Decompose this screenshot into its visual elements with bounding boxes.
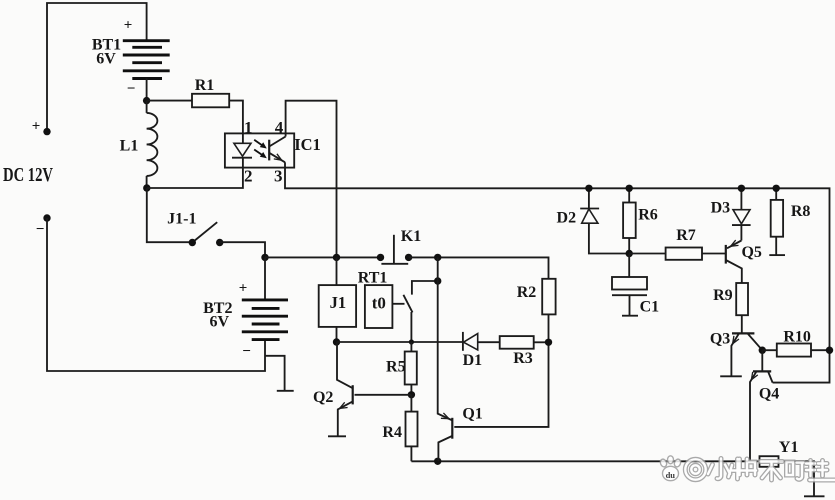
- resistor R9: [713, 283, 748, 333]
- transistor Q2: [313, 342, 353, 436]
- relay coil J1: [319, 257, 356, 342]
- wire K1 row right part to R2: [409, 257, 549, 278]
- svg-text:−: −: [242, 344, 251, 360]
- diode D1: [463, 332, 500, 369]
- node R8 top junction: [773, 185, 780, 192]
- wire row from J1 bottom to D1: [337, 341, 463, 343]
- resistor R8: [771, 188, 811, 255]
- switch K1: [377, 228, 421, 264]
- svg-text:−: −: [36, 222, 45, 238]
- node R2/R3/Q1 base junction: [545, 339, 552, 346]
- svg-text:R10: R10: [783, 328, 811, 345]
- wire Q1 emitter rail: [438, 257, 453, 420]
- label BT2 6V: [203, 300, 232, 330]
- node L1 bottom junction: [143, 184, 150, 191]
- svg-text:R7: R7: [676, 227, 696, 244]
- wire bottom long rail: [411, 460, 759, 462]
- node BT1 bottom junction: [143, 97, 150, 104]
- svg-text:6V: 6V: [210, 313, 230, 330]
- inductor L1: [120, 101, 158, 188]
- svg-text:2: 2: [244, 166, 253, 185]
- ground below BT2: [277, 390, 294, 392]
- resistor R6: [623, 188, 658, 253]
- switch J1-1: [147, 188, 265, 257]
- wire Q2 base: [355, 394, 412, 396]
- ground below Q3: [720, 375, 742, 377]
- svg-text:Y1: Y1: [779, 439, 799, 456]
- transistor Q3: [710, 331, 762, 377]
- transistor Q5: [726, 240, 762, 283]
- svg-text:IC1: IC1: [294, 135, 321, 154]
- pin 4 label: [275, 118, 284, 137]
- svg-text:+: +: [124, 18, 133, 34]
- svg-text:D3: D3: [711, 200, 731, 217]
- diode D2: [557, 188, 630, 253]
- battery BT1: [123, 18, 170, 101]
- node Q1 collector junction: [434, 458, 441, 465]
- svg-text:D2: D2: [557, 209, 577, 226]
- svg-text:+: +: [32, 119, 41, 135]
- svg-text:K1: K1: [401, 228, 421, 245]
- ground below Y1: [804, 495, 825, 497]
- buzzer Y1: [760, 439, 815, 496]
- transistor Q1: [438, 342, 548, 461]
- node R5/R4/Q2 base junction: [408, 391, 415, 398]
- svg-text:R1: R1: [195, 77, 215, 94]
- node J1 rail junction: [333, 254, 340, 261]
- svg-text:J1: J1: [330, 293, 347, 312]
- svg-text:Q1: Q1: [462, 406, 482, 423]
- wire left rail down and bottom to BT2 minus: [47, 218, 265, 371]
- svg-text:1: 1: [244, 118, 253, 137]
- LED inside IC1: [232, 143, 252, 157]
- svg-text:R3: R3: [513, 350, 533, 367]
- node D3 top junction: [738, 185, 745, 192]
- svg-text:4: 4: [275, 118, 284, 137]
- svg-text:R2: R2: [517, 284, 537, 301]
- node DC+ terminal: [32, 119, 51, 136]
- node D2/R6/C1/R7 junction: [626, 250, 633, 257]
- node D2 top junction: [585, 185, 592, 192]
- resistor R7: [629, 227, 726, 260]
- svg-text:3: 3: [274, 166, 283, 185]
- capacitor C1: [612, 254, 659, 316]
- node J1 bottom junction: [333, 338, 340, 345]
- node DC- terminal: [36, 214, 51, 237]
- svg-text:C1: C1: [640, 298, 660, 315]
- svg-text:R8: R8: [791, 203, 811, 220]
- node RT1 stub junction: [434, 277, 441, 284]
- ground below R8: [769, 254, 785, 256]
- svg-text:R9: R9: [713, 287, 733, 304]
- svg-text:du: du: [666, 470, 676, 480]
- resistor R1: [147, 77, 243, 143]
- svg-text:Q4: Q4: [759, 386, 779, 403]
- node BT2 top junction: [261, 254, 268, 261]
- svg-text:+: +: [239, 280, 248, 296]
- node R5 top junction: [409, 339, 414, 344]
- svg-text:R5: R5: [386, 359, 406, 376]
- wire pin2 to L1 bottom: [147, 158, 243, 188]
- ground below Q2: [328, 435, 346, 437]
- svg-text:Q3: Q3: [710, 331, 730, 348]
- svg-text:RT1: RT1: [358, 269, 388, 286]
- svg-text:J1-1: J1-1: [167, 211, 196, 228]
- svg-text:−: −: [127, 81, 136, 97]
- optocoupler IC1 box: [225, 133, 321, 167]
- resistor R3: [500, 336, 549, 367]
- svg-text:R6: R6: [638, 206, 658, 223]
- node R6 top junction: [626, 185, 633, 192]
- node K1 rail / Q1 rail junction: [434, 254, 441, 261]
- resistor R5: [386, 342, 417, 395]
- svg-text:D1: D1: [463, 352, 483, 369]
- svg-text:L1: L1: [120, 138, 139, 155]
- wire top loop from DC+ rail to BT1 top: [47, 3, 147, 132]
- svg-text:DC 12V: DC 12V: [3, 165, 53, 186]
- transistor Q4: [750, 350, 779, 461]
- resistor R4: [382, 395, 417, 462]
- thermal switch RT1: [358, 269, 438, 342]
- label BT1 6V: [92, 37, 121, 68]
- pin 3 label: [274, 166, 283, 185]
- label DC 12V: [3, 165, 53, 186]
- wire BT2 ground stub: [265, 356, 285, 391]
- resistor R10: [762, 328, 829, 356]
- svg-text:Q2: Q2: [313, 389, 333, 406]
- svg-text:Q5: Q5: [741, 244, 761, 261]
- node Q3 collector / Q4 base junction: [759, 347, 766, 354]
- wire pin4 jumper over to K1 rail: [286, 101, 337, 258]
- resistor R2: [517, 279, 556, 343]
- pin 2 label: [244, 166, 253, 185]
- svg-text:t0: t0: [372, 294, 386, 313]
- node R10 right junction: [826, 347, 833, 354]
- wire K1 row left part: [265, 256, 381, 258]
- pin 1 label: [244, 118, 253, 137]
- light arrows inside IC1: [254, 140, 267, 158]
- battery BT2: [239, 257, 288, 359]
- svg-text:R4: R4: [382, 424, 402, 441]
- wire pin3 long rail right and down right edge: [285, 162, 830, 382]
- svg-text:6V: 6V: [96, 51, 116, 68]
- diode D3: [711, 188, 751, 240]
- phototransistor inside IC1: [269, 137, 285, 163]
